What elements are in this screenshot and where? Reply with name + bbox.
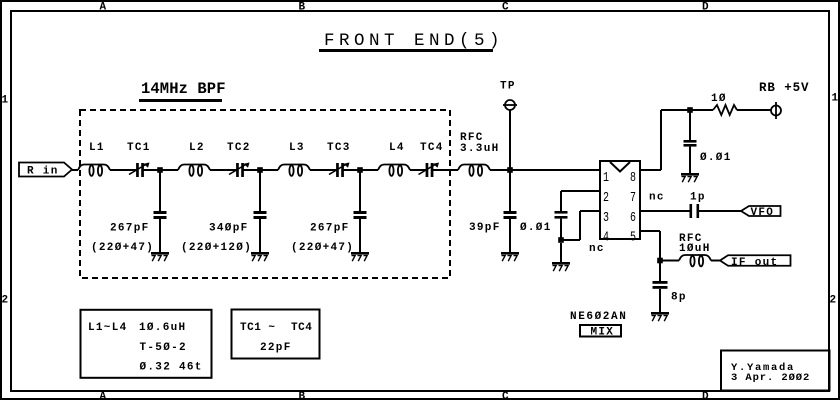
svg-text:267pF: 267pF	[310, 223, 350, 235]
svg-text:RB +5V: RB +5V	[759, 81, 809, 95]
svg-text:MIX: MIX	[591, 327, 615, 339]
svg-text:L2: L2	[189, 142, 205, 154]
svg-text:L4: L4	[389, 142, 405, 154]
svg-text:1ØuH: 1ØuH	[679, 243, 711, 255]
svg-text:1: 1	[2, 95, 10, 107]
svg-text:Ø.Ø1: Ø.Ø1	[700, 152, 732, 164]
svg-text:TC4: TC4	[420, 142, 444, 154]
svg-text:39pF: 39pF	[469, 222, 501, 234]
svg-text:2: 2	[830, 295, 838, 307]
svg-text:TC1 ~: TC1 ~	[240, 322, 276, 334]
svg-text:TC2: TC2	[227, 142, 251, 154]
svg-text:TC4: TC4	[291, 322, 312, 334]
svg-text:NE6Ø2AN: NE6Ø2AN	[570, 311, 627, 323]
svg-text:IF out: IF out	[731, 257, 778, 269]
svg-text:Ø.Ø1: Ø.Ø1	[520, 222, 552, 234]
svg-text:nc: nc	[589, 243, 605, 255]
svg-text:(22Ø+12Ø): (22Ø+12Ø)	[181, 242, 252, 254]
svg-text:3: 3	[603, 210, 609, 226]
svg-text:1Ø: 1Ø	[711, 93, 727, 105]
svg-text:3 Apr. 2ØØ2: 3 Apr. 2ØØ2	[731, 372, 810, 384]
svg-text:A: A	[100, 391, 108, 400]
svg-text:T-5Ø-2: T-5Ø-2	[140, 342, 187, 354]
svg-text:L3: L3	[289, 142, 305, 154]
svg-text:1p: 1p	[690, 192, 706, 204]
svg-text:D: D	[702, 391, 710, 400]
svg-text:8: 8	[630, 170, 636, 186]
svg-text:8p: 8p	[671, 292, 687, 304]
svg-text:14MHz BPF: 14MHz BPF	[141, 80, 226, 98]
svg-text:L1: L1	[89, 142, 105, 154]
svg-text:Ø.32 46t: Ø.32 46t	[140, 362, 203, 374]
svg-text:1Ø.6uH: 1Ø.6uH	[139, 322, 186, 334]
svg-text:6: 6	[630, 210, 636, 226]
svg-text:7: 7	[630, 190, 636, 206]
svg-text:267pF: 267pF	[110, 223, 150, 235]
svg-text:TP: TP	[500, 81, 516, 93]
svg-text:1: 1	[603, 170, 609, 186]
svg-text:TC3: TC3	[327, 142, 351, 154]
svg-text:L1~L4: L1~L4	[88, 322, 128, 334]
svg-text:2: 2	[603, 190, 609, 206]
svg-text:D: D	[702, 2, 710, 14]
svg-text:B: B	[299, 2, 307, 14]
svg-text:2: 2	[2, 295, 10, 307]
svg-text:34ØpF: 34ØpF	[209, 223, 249, 235]
svg-text:C: C	[502, 2, 510, 14]
svg-text:TC1: TC1	[127, 142, 151, 154]
svg-text:R in: R in	[27, 166, 59, 178]
svg-text:VFO: VFO	[751, 207, 775, 219]
svg-text:1: 1	[832, 93, 840, 105]
svg-text:C: C	[502, 391, 510, 400]
svg-text:22pF: 22pF	[260, 342, 292, 354]
svg-text:(22Ø+47): (22Ø+47)	[91, 242, 154, 254]
svg-text:A: A	[100, 2, 108, 14]
svg-text:3.3uH: 3.3uH	[460, 143, 500, 155]
svg-text:nc: nc	[649, 192, 665, 204]
svg-text:5: 5	[630, 229, 636, 245]
svg-text:(22Ø+47): (22Ø+47)	[291, 242, 354, 254]
svg-text:B: B	[299, 391, 307, 400]
svg-text:FRONT END(5): FRONT END(5)	[324, 31, 504, 51]
